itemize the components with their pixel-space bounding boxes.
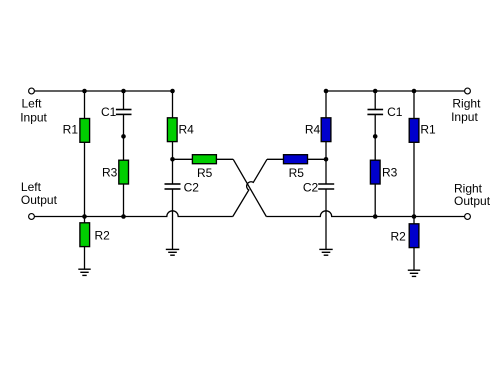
capacitor C2 (right) (303, 180, 334, 194)
svg-text:R2: R2 (390, 229, 406, 243)
svg-text:R3: R3 (102, 166, 118, 180)
svg-text:Output: Output (21, 193, 58, 207)
svg-text:R4: R4 (305, 123, 321, 137)
svg-text:Output: Output (454, 194, 491, 208)
resistor R5 (right, blue, horizontal) (284, 155, 308, 180)
junction: right input rail / C1 (373, 89, 378, 94)
junction: right output rail / R2 (412, 214, 417, 219)
capacitor C1 (left) (101, 105, 132, 119)
svg-text:R3: R3 (382, 166, 398, 180)
svg-text:C2: C2 (303, 180, 319, 194)
junction: left input rail / C1 (121, 89, 126, 94)
wire right C1 to R3 to bottom rail (374, 114, 376, 216)
svg-text:R1: R1 (420, 123, 436, 137)
ground (right R2) (408, 270, 420, 276)
resistor R1 (right, blue) (409, 119, 436, 143)
svg-text:R1: R1 (63, 123, 79, 137)
svg-text:R2: R2 (95, 229, 111, 243)
svg-text:R5: R5 (197, 166, 213, 180)
junction: left C1 / R3 node (121, 134, 126, 139)
resistor R5 (left, green, horizontal) (192, 155, 216, 180)
wire right R1 branch (413, 91, 415, 217)
junction: left output rail / R3 (121, 214, 126, 219)
resistor R1 (left, green) (63, 119, 90, 143)
capacitor C1 (right) (367, 105, 402, 119)
wire left C1 branch top (123, 91, 125, 110)
svg-text:C1: C1 (387, 105, 403, 119)
resistor R4 (left, green) (167, 118, 194, 142)
junction: left input rail / R4 corner (170, 89, 175, 94)
svg-text:C1: C1 (101, 105, 117, 119)
wire crossover diagonal A (left R5 to right bottom rail) (233, 159, 266, 216)
wire crossover diagonal B with hop (right R5 to left bottom rail) (233, 159, 267, 216)
svg-text:Input: Input (451, 110, 478, 124)
ground (left C2) (166, 249, 179, 255)
junction: right input rail / R4 corner (324, 89, 329, 94)
input terminal right (465, 88, 471, 94)
wire right bottom rail with hop over C2 ground wire (266, 211, 464, 217)
junction: right input rail / R1 (412, 89, 417, 94)
junction: right C1 / R3 node (373, 134, 378, 139)
wire left bottom rail with hop over C2 ground wire (35, 211, 233, 217)
ground (right C2) (319, 249, 332, 255)
svg-text:Left: Left (22, 97, 43, 111)
svg-text:R5: R5 (289, 166, 305, 180)
resistor R2 (right, blue) (390, 224, 418, 248)
svg-text:C2: C2 (184, 180, 200, 194)
wire left C1 to R3 to bottom rail (123, 114, 125, 216)
wire left R4 branch (172, 91, 174, 184)
wire left R5 branch (173, 158, 234, 160)
wire right R5 branch (267, 158, 326, 160)
resistor R4 (right, blue) (305, 118, 331, 142)
junction: left output rail / R2 (82, 214, 87, 219)
input terminal left (29, 88, 35, 94)
wire left R1 branch (84, 91, 86, 217)
ground (left R2) (78, 269, 90, 275)
junction: right output rail / R3 (373, 214, 378, 219)
svg-text:Input: Input (20, 110, 47, 124)
svg-text:Right: Right (452, 97, 481, 111)
svg-text:R4: R4 (179, 123, 195, 137)
wire right C1 branch top (374, 91, 376, 110)
wire left C2 to ground (172, 189, 174, 249)
wire left R2 branch (84, 217, 86, 270)
svg-text:Left: Left (21, 180, 42, 194)
output terminal left (29, 214, 35, 220)
wire right top rail (326, 90, 465, 92)
wire right R4 branch (325, 91, 327, 184)
junction: right R4 / R5 / C2 node (324, 157, 329, 162)
resistor R2 (left, green) (80, 223, 110, 247)
output terminal right (465, 214, 471, 220)
wire right C2 to ground (325, 189, 327, 249)
wire left top rail (35, 90, 173, 92)
resistor R3 (left, green) (102, 160, 129, 184)
wire right R2 branch (413, 217, 415, 271)
junction: left input rail / R1 (82, 89, 87, 94)
capacitor C2 (left) (165, 180, 200, 194)
junction: left R4 / R5 / C2 node (170, 157, 175, 162)
resistor R3 (right, blue) (370, 160, 397, 184)
